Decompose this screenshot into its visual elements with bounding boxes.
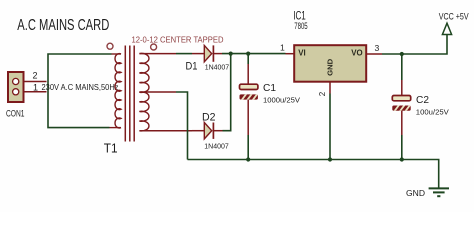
wire IC1 pin2 stub (red) — [329, 82, 331, 93]
junction at C1 top node — [246, 52, 250, 56]
svg-text:230V A.C MAINS,50Hz: 230V A.C MAINS,50Hz — [42, 82, 119, 92]
wire IC1 pin3 to VCC riser — [382, 35, 447, 54]
junction C2 at ground rail — [400, 157, 404, 161]
terminal marker circle at secondary top — [151, 44, 157, 50]
wire D2 anode stub — [192, 130, 204, 132]
svg-text:2: 2 — [33, 71, 38, 81]
wire IC1 pin3 stub (red) — [367, 53, 383, 55]
capacitor C1 — [240, 84, 259, 101]
wire C1 top pin stub (red) — [247, 64, 249, 84]
svg-text:1000u/25V: 1000u/25V — [263, 95, 300, 104]
svg-text:C1: C1 — [263, 82, 276, 94]
connector CON1 — [8, 72, 24, 102]
svg-text:GND: GND — [326, 58, 335, 76]
wire C1 bottom to ground rail — [247, 135, 249, 160]
wire CON1 pin1 to left riser (red stub) — [24, 91, 47, 93]
power flag VCC +5V — [442, 23, 451, 34]
svg-text:1N4007: 1N4007 — [205, 63, 230, 72]
wire D2 cathode stub — [213, 130, 222, 132]
svg-text:C2: C2 — [416, 94, 429, 106]
wire D1 anode stub — [192, 53, 204, 55]
svg-text:7805: 7805 — [294, 21, 308, 31]
svg-text:100u/25V: 100u/25V — [416, 107, 449, 116]
wire secondary top to D1 anode — [176, 53, 192, 55]
wire left riser with top run to primary top and bottom run to primary bottom — [48, 54, 112, 128]
svg-text:D2: D2 — [202, 111, 216, 123]
svg-text:CON1: CON1 — [6, 109, 25, 119]
svg-text:VI: VI — [298, 49, 305, 58]
transformer T1 primary winding — [110, 54, 122, 128]
transformer T1 core — [125, 46, 134, 142]
svg-text:T1: T1 — [104, 142, 118, 156]
wire C2 bottom to ground rail — [401, 135, 403, 160]
regulator IC1 7805 — [294, 45, 366, 81]
wire D2 cathode riser to DC node — [223, 54, 231, 131]
junction IC1 pin2 at ground rail — [328, 157, 332, 161]
wire C1 top connection — [247, 54, 249, 64]
svg-text:12-0-12 CENTER TAPPED: 12-0-12 CENTER TAPPED — [132, 35, 224, 45]
wire IC1 pin1 stub (red) — [286, 53, 294, 55]
svg-text:1: 1 — [280, 43, 285, 53]
wire CON1 pin2 to left riser (red stub) — [24, 81, 47, 83]
svg-text:VCC +5V: VCC +5V — [439, 12, 469, 22]
svg-text:D1: D1 — [186, 60, 198, 72]
wire secondary bottom lead (red stub) — [139, 130, 192, 132]
capacitor C2 — [392, 96, 411, 113]
diode D2 — [204, 123, 213, 139]
svg-text:1N4007: 1N4007 — [204, 142, 229, 151]
svg-text:1: 1 — [33, 83, 38, 93]
wire ground rail — [188, 160, 439, 188]
wire C2 bottom pin stub (red) — [401, 111, 403, 135]
transformer T1 secondary winding (center tapped) — [139, 53, 149, 131]
svg-text:VO: VO — [351, 49, 362, 58]
wire D1 cathode to IC1 pin 1 — [222, 53, 286, 55]
terminal marker circle at primary top — [107, 43, 113, 49]
wire secondary center tap lead (red stub) — [139, 91, 176, 93]
diode D1 — [204, 45, 213, 61]
junction at C2 top node — [400, 52, 404, 56]
junction C1 at ground rail — [246, 157, 250, 161]
wire center tap to ground rail — [176, 92, 188, 160]
svg-text:A.C MAINS CARD: A.C MAINS CARD — [17, 17, 109, 34]
wire C2 top pin stub (red) — [401, 80, 403, 96]
ground symbol — [429, 188, 449, 196]
wire C2 top connection — [401, 54, 403, 80]
wire IC1 pin2 to ground rail — [329, 94, 331, 160]
wire D1 cathode stub — [213, 53, 222, 55]
svg-text:GND: GND — [406, 188, 425, 198]
junction at D1/D2 cathodes node — [229, 52, 233, 56]
wire secondary top lead (red stub) — [139, 53, 176, 55]
svg-text:2: 2 — [318, 91, 327, 96]
svg-text:3: 3 — [375, 43, 380, 53]
wire C1 bottom pin stub (red) — [247, 100, 249, 135]
